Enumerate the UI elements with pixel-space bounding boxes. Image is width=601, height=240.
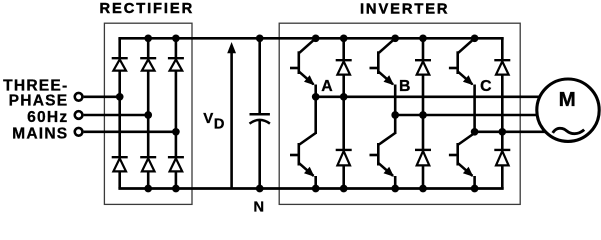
wire rectifier leg 3 middle bbox=[175, 71, 178, 157]
wire Q5 emitter to bus bbox=[394, 176, 397, 189]
svg-text:RECTIFIER: RECTIFIER bbox=[99, 1, 194, 17]
wire node A to Q4 bbox=[314, 97, 317, 134]
diode D11 (freewheel B lower) bbox=[415, 150, 431, 166]
wire Q4 emitter to bus bbox=[314, 176, 317, 189]
junction rectifier leg 3 top bbox=[172, 34, 180, 42]
diode D10 (freewheel A lower) bbox=[336, 150, 352, 166]
wire phase B output bbox=[395, 114, 539, 117]
diode D3 (rectifier upper) bbox=[168, 58, 184, 70]
wire freewheel leg C middle bbox=[501, 75, 504, 149]
wire freewheel leg A middle bbox=[342, 75, 345, 149]
diode D7 (freewheel A upper) bbox=[336, 60, 352, 74]
junction Q6 emitter bbox=[471, 185, 479, 193]
wire freewheel leg C upper bbox=[501, 38, 504, 59]
wire freewheel leg B upper bbox=[422, 38, 425, 59]
wire rectifier leg 2 middle bbox=[147, 71, 150, 157]
wire rectifier leg 1 upper bbox=[118, 38, 121, 57]
transistor Q1 (phase A upper) bbox=[290, 38, 316, 85]
terminal input phase 2 bbox=[75, 111, 83, 119]
junction freewheel A bottom bbox=[340, 185, 348, 193]
svg-text:MAINS: MAINS bbox=[12, 125, 68, 142]
svg-text:INVERTER: INVERTER bbox=[360, 1, 449, 17]
junction rectifier leg 3 bottom bbox=[172, 185, 180, 193]
junction node C at D9 bbox=[498, 128, 506, 136]
wire freewheel leg A upper bbox=[342, 38, 345, 59]
junction node B at D8 bbox=[419, 111, 427, 119]
diode D1 (rectifier upper) bbox=[112, 58, 128, 70]
diode D2 (rectifier upper) bbox=[140, 58, 156, 70]
motor AC tilde bbox=[553, 128, 585, 133]
junction rectifier leg 2 bottom bbox=[144, 185, 152, 193]
junction freewheel A top bbox=[340, 34, 348, 42]
inverter block box bbox=[279, 23, 520, 204]
junction freewheel B top bbox=[419, 34, 427, 42]
voltage arrow VD line bbox=[230, 50, 233, 189]
wire rectifier leg 2 upper bbox=[147, 38, 150, 57]
diode D12 (freewheel C lower) bbox=[494, 150, 510, 166]
svg-text:A: A bbox=[321, 78, 332, 95]
transistor Q6 (phase C lower) bbox=[449, 133, 475, 177]
wire rectifier leg 3 upper bbox=[175, 38, 178, 57]
junction Q3 collector bbox=[471, 34, 479, 42]
junction node A at Q1 bbox=[312, 93, 320, 101]
wire Q3 emitter to node C bbox=[473, 85, 476, 132]
svg-text:B: B bbox=[399, 78, 410, 95]
wire Q2 emitter to node B bbox=[394, 85, 397, 116]
junction freewheel B bottom bbox=[419, 185, 427, 193]
wire freewheel leg A lower bbox=[342, 165, 345, 188]
transistor Q5 (phase B lower) bbox=[370, 133, 396, 177]
junction Q1 collector bbox=[312, 34, 320, 42]
wire Q1 emitter to node A bbox=[314, 85, 317, 97]
junction input phase 1 node bbox=[116, 93, 124, 101]
svg-text:PHASE: PHASE bbox=[9, 93, 69, 110]
junction node C at Q3 bbox=[471, 128, 479, 136]
wire rectifier leg 1 lower bbox=[118, 171, 121, 188]
wire capacitor top lead bbox=[258, 38, 261, 114]
wire Q6 emitter to bus bbox=[473, 176, 476, 189]
junction node B at Q2 bbox=[391, 111, 399, 119]
svg-text:M: M bbox=[559, 88, 576, 111]
wire freewheel leg B lower bbox=[422, 165, 425, 188]
wire rectifier leg 2 lower bbox=[147, 171, 150, 188]
diode D4 (rectifier lower) bbox=[112, 157, 128, 171]
svg-text:N: N bbox=[254, 200, 265, 216]
transistor Q4 (phase A lower) bbox=[290, 133, 316, 177]
junction Q5 emitter bbox=[391, 185, 399, 193]
motor M circle bbox=[537, 79, 599, 141]
svg-text:C: C bbox=[480, 78, 491, 95]
junction capacitor top bbox=[256, 34, 264, 42]
diode D9 (freewheel C upper) bbox=[494, 60, 510, 74]
diode D5 (rectifier lower) bbox=[140, 157, 156, 171]
wire rectifier leg 3 lower bbox=[175, 171, 178, 188]
wire node C to Q6 bbox=[473, 132, 476, 134]
junction node A at D7 bbox=[340, 93, 348, 101]
wire capacitor bottom lead bbox=[258, 121, 261, 189]
junction input phase 3 node bbox=[172, 128, 180, 136]
transistor Q3 (phase C upper) bbox=[449, 38, 475, 85]
wire input phase 1 bbox=[84, 96, 120, 99]
wire input phase 2 bbox=[84, 114, 149, 117]
rectifier block box bbox=[104, 23, 192, 204]
diode D8 (freewheel B upper) bbox=[415, 60, 431, 74]
capacitor C top plate bbox=[250, 113, 270, 116]
transistor Q2 (phase B upper) bbox=[370, 38, 396, 85]
terminal input phase 3 bbox=[75, 128, 83, 136]
wire freewheel leg C lower bbox=[501, 165, 504, 188]
diode D6 (rectifier lower) bbox=[168, 157, 184, 171]
junction Q4 emitter bbox=[312, 185, 320, 193]
terminal input phase 1 bbox=[75, 93, 83, 101]
svg-text:VD: VD bbox=[203, 110, 224, 133]
junction capacitor bottom (N node) bbox=[256, 185, 264, 193]
wire positive DC bus bbox=[118, 37, 503, 40]
svg-text:60Hz: 60Hz bbox=[27, 109, 68, 126]
capacitor C bottom plate bbox=[250, 120, 270, 124]
junction rectifier leg 2 top bbox=[144, 34, 152, 42]
wire rectifier leg 1 middle bbox=[118, 71, 121, 157]
voltage arrow VD head bbox=[227, 42, 236, 53]
wire phase C output bbox=[475, 131, 548, 134]
wire input phase 3 bbox=[84, 131, 176, 134]
wire negative DC bus bbox=[118, 187, 503, 190]
wire phase A output bbox=[316, 96, 542, 99]
wire freewheel leg B middle bbox=[422, 75, 425, 149]
wire node B to Q5 bbox=[394, 115, 397, 134]
junction input phase 2 node bbox=[144, 111, 152, 119]
junction Q2 collector bbox=[391, 34, 399, 42]
